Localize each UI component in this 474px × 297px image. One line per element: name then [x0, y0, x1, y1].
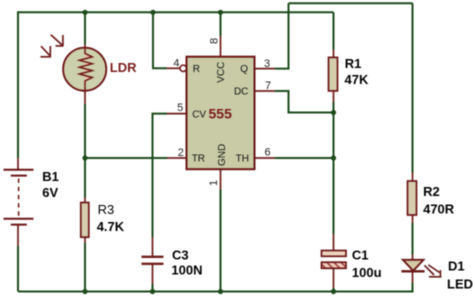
wire output rail	[289, 2, 413, 4]
svg-text:4.7K: 4.7K	[97, 219, 125, 234]
wire R1 branch	[333, 12, 335, 49]
node top LDR	[82, 10, 87, 15]
svg-text:D1: D1	[448, 259, 465, 274]
555 timer IC U1	[187, 57, 255, 170]
svg-text:5: 5	[177, 102, 183, 114]
node TR junction	[82, 155, 87, 160]
svg-text:C3: C3	[172, 248, 189, 263]
svg-text:2: 2	[178, 147, 184, 159]
wire left battery vertical	[17, 11, 19, 158]
svg-text:B1: B1	[42, 169, 59, 184]
svg-text:R: R	[193, 64, 200, 75]
photoresistor LDR	[40, 35, 106, 91]
svg-text:Q: Q	[240, 64, 248, 75]
resistor R2	[408, 181, 417, 215]
wire R3 branch	[84, 158, 86, 198]
wire pin2 trigger	[167, 157, 187, 159]
svg-text:555: 555	[209, 106, 233, 122]
svg-text:GND: GND	[217, 144, 228, 166]
node top pin8	[218, 10, 223, 15]
wire LED bottom	[412, 272, 414, 283]
svg-text:4: 4	[173, 58, 179, 70]
wire C1 bottom	[333, 268, 335, 288]
svg-text:TR: TR	[192, 154, 205, 165]
capacitor C1	[322, 251, 347, 257]
wire pin8 vcc	[220, 12, 222, 36]
svg-text:47K: 47K	[345, 72, 369, 87]
node bottom C1	[331, 289, 336, 294]
node TH junction	[331, 155, 336, 160]
svg-text:7: 7	[265, 80, 271, 92]
svg-text:R3: R3	[98, 202, 115, 217]
svg-text:100u: 100u	[352, 265, 382, 280]
wire R2 branch	[412, 3, 414, 172]
wire LDR branch	[84, 12, 86, 44]
wire pin4 reset	[153, 12, 167, 68]
svg-text:470R: 470R	[423, 202, 455, 217]
svg-text:CV: CV	[192, 110, 206, 121]
svg-text:8: 8	[209, 38, 221, 44]
wire pin5 cv to C3	[167, 113, 187, 115]
resistor R3	[81, 203, 89, 238]
resistor R1	[329, 57, 338, 91]
wire top rail	[18, 11, 334, 13]
node DC R1 junction	[331, 110, 336, 115]
diode D1 LED	[401, 260, 441, 277]
svg-text:6: 6	[265, 147, 271, 159]
svg-text:R1: R1	[345, 56, 362, 71]
svg-text:VCC: VCC	[216, 62, 227, 83]
wire pin3 output	[255, 68, 276, 70]
node bottom pin1	[218, 289, 223, 294]
svg-text:DC: DC	[234, 87, 248, 98]
node bottom R3	[82, 289, 87, 294]
svg-text:LDR: LDR	[110, 60, 137, 75]
node bottom C3	[150, 289, 155, 294]
node top pin4	[150, 10, 155, 15]
capacitor C3	[142, 257, 164, 264]
svg-text:LED: LED	[447, 277, 473, 292]
wire pin1 gnd	[220, 169, 222, 189]
svg-text:TH: TH	[236, 154, 249, 165]
svg-text:R2: R2	[423, 184, 440, 199]
battery B1	[4, 170, 34, 225]
svg-text:3: 3	[264, 58, 270, 70]
wire bottom rail	[18, 291, 413, 293]
svg-text:1: 1	[208, 180, 220, 186]
svg-text:6V: 6V	[42, 185, 58, 200]
wire C3 bottom	[152, 265, 154, 285]
wire pin7 discharge	[255, 90, 276, 92]
svg-text:C1: C1	[352, 247, 369, 262]
wire pin6 threshold	[255, 157, 276, 159]
svg-text:100N: 100N	[171, 263, 202, 278]
pin4 bubble	[180, 65, 186, 71]
